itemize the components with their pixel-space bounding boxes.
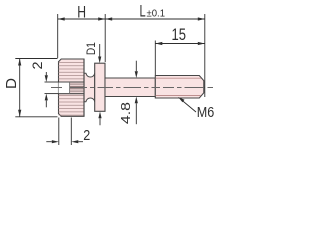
screwdriver slot (side view): [59, 59, 85, 116]
knurled head: [59, 59, 85, 116]
dimension 4.8: [135, 61, 138, 124]
svg-text:M6: M6: [197, 105, 215, 121]
svg-text:D: D: [3, 78, 20, 89]
neck (undercut groove between head and collar): [84, 73, 95, 101]
svg-text:4.8: 4.8: [119, 102, 133, 124]
dimension L±0.1: [105, 14, 205, 97]
dimension 2 (bottom): [46, 118, 83, 146]
svg-text:±0.1: ±0.1: [147, 7, 166, 19]
dimension 2 (slot width): [45, 72, 59, 107]
label M6 with leader: [178, 97, 196, 112]
svg-text:2: 2: [29, 61, 45, 69]
dimension D: [15, 59, 57, 117]
dimension 15: [155, 41, 205, 76]
svg-text:2: 2: [83, 127, 90, 144]
collar D1: [95, 63, 105, 111]
svg-text:15: 15: [172, 26, 187, 44]
svg-text:L: L: [140, 2, 146, 20]
svg-text:D1: D1: [86, 42, 98, 55]
threaded end M6: [155, 76, 204, 99]
dimension D1: [98, 44, 102, 125]
shaft: [105, 78, 155, 97]
centerline: [51, 87, 213, 89]
svg-text:H: H: [77, 4, 86, 22]
dimension H: [58, 14, 105, 62]
